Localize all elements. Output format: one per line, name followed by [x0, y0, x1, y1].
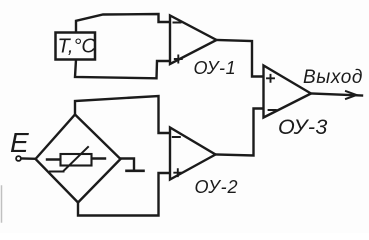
svg-text:ОУ-3: ОУ-3 — [278, 115, 328, 139]
op-amp U1 OU-1 — [170, 16, 217, 65]
bridge rhombus — [36, 115, 121, 203]
wire: bridge top node to OU-2 inverting input — [75, 96, 170, 133]
wire: bridge bottom node to OU-2 noninverting input — [78, 173, 170, 216]
wire: OU-1 output to OU-3 noninverting input — [217, 40, 264, 77]
wire: E terminal to bridge left node — [22, 157, 36, 160]
wire: OU-2 output to OU-3 inverting input — [216, 109, 264, 156]
temperature sensor T,C box — [56, 33, 97, 60]
svg-text:T,°C: T,°C — [58, 36, 97, 58]
op-amp U3 OU-3 — [264, 66, 312, 118]
wire: sensor box bottom to OU-1 noninverting input — [75, 60, 170, 79]
svg-text:Выход: Выход — [303, 67, 363, 88]
ground — [121, 159, 144, 171]
thermistor RK in bridge — [47, 147, 105, 172]
op-amp U2 OU-2 — [170, 128, 216, 180]
svg-text:E: E — [10, 127, 29, 158]
svg-text:ОУ-1: ОУ-1 — [194, 58, 237, 78]
output wire with arrowhead — [311, 91, 362, 99]
svg-text:ОУ-2: ОУ-2 — [195, 177, 239, 197]
wire: sensor box top to OU-1 inverting input — [76, 14, 170, 33]
scan edge artifact — [1, 186, 3, 222]
terminal E circle — [16, 156, 21, 161]
